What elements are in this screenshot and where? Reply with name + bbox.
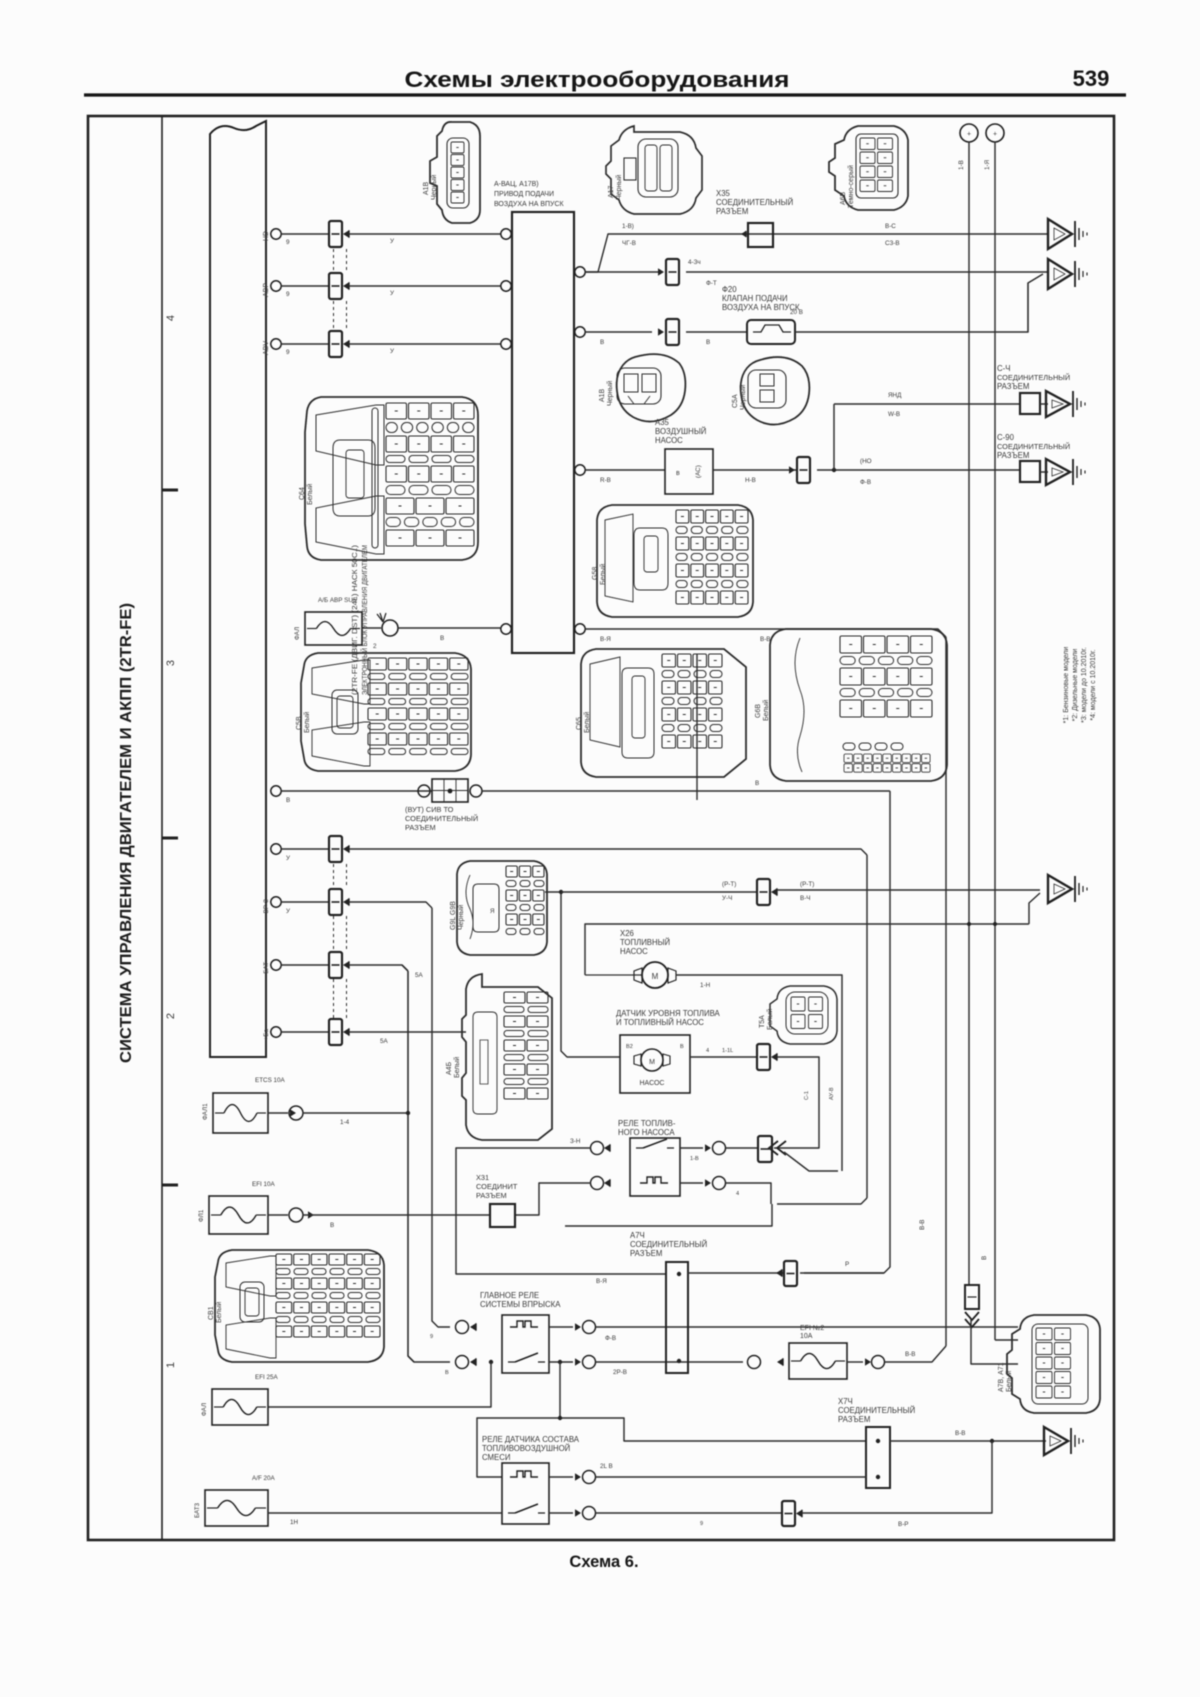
svg-text:2: 2	[373, 643, 377, 650]
wire row902 to drop x432	[349, 902, 432, 908]
fuse F2 ЕТСS 10А	[213, 1093, 268, 1133]
zone tick 3/2	[162, 837, 178, 840]
step wire to relay area	[565, 1204, 772, 1226]
svg-text:АВР: АВР	[263, 283, 270, 297]
dashed link between connectors top group	[333, 249, 335, 271]
svg-text:(ВУТ) СИВ ТО: (ВУТ) СИВ ТО	[405, 805, 454, 814]
main relay right pins	[575, 1323, 581, 1330]
svg-text:А7Ч: А7Ч	[630, 1231, 645, 1240]
svg-text:Черный: Черный	[615, 175, 623, 200]
svg-text:1-Н: 1-Н	[700, 982, 711, 989]
ground G1	[1048, 219, 1072, 249]
fuse F1 АМ2 30А	[305, 612, 362, 645]
svg-text:СОЕДИНИТЕЛЬНЫЙ: СОЕДИНИТЕЛЬНЫЙ	[630, 1240, 707, 1249]
svg-text:ВОЗДУХА НА ВПУСК: ВОЗДУХА НА ВПУСК	[494, 201, 565, 208]
svg-text:G58: G58	[592, 567, 599, 580]
svg-text:ФАЛ: ФАЛ	[294, 627, 301, 640]
реле топливного насоса box	[630, 1138, 680, 1196]
svg-text:Белый: Белый	[453, 1057, 461, 1078]
привод output pin row2	[575, 327, 585, 337]
drop x408 to main relay row2	[408, 971, 450, 1362]
svg-text:А35: А35	[655, 418, 670, 427]
svg-text:В-Я: В-Я	[596, 1278, 607, 1285]
connector Х7Ч соединительный разъем 2	[866, 1427, 890, 1488]
svg-text:Белый: Белый	[215, 1302, 223, 1323]
connector A46 Белый big	[462, 974, 552, 1140]
svg-text:РАЗЪЕМ: РАЗЪЕМ	[838, 1415, 870, 1424]
svg-text:В-Ч: В-Ч	[800, 895, 811, 902]
svg-text:ДАТЧИК УРОВНЯ ТОПЛИВА: ДАТЧИК УРОВНЯ ТОПЛИВА	[616, 1009, 721, 1018]
svg-text:Ф-В: Ф-В	[605, 1335, 616, 1342]
inline connector row1057	[757, 1044, 770, 1070]
привод output pin row3	[575, 465, 585, 475]
junction dots row1362	[489, 1360, 493, 1364]
svg-text:НАСОС: НАСОС	[620, 947, 648, 956]
wire main relay row1 to A7B	[596, 1326, 1018, 1328]
svg-text:АУ-В: АУ-В	[829, 1087, 835, 1100]
svg-text:НАСОС: НАСОС	[655, 436, 683, 445]
svg-text:Черный: Черный	[606, 381, 614, 406]
svg-text:ВОЗДУХА НА ВПУСК: ВОЗДУХА НА ВПУСК	[722, 303, 800, 312]
svg-text:Черный: Черный	[430, 175, 438, 200]
ECU pin АВР	[271, 281, 281, 291]
wire sensor to connector row1057	[690, 1056, 757, 1058]
wire G66 to fuel gauge sensor	[545, 892, 620, 1057]
реле датчика box	[502, 1463, 549, 1524]
junction dots on bus at pump line	[967, 922, 971, 926]
wire EFI25 riser	[268, 1362, 491, 1407]
wire row849 to bus x867	[349, 849, 867, 855]
привод output pin row1	[575, 267, 585, 277]
svg-text:*4: модели с 10.2010г.: *4: модели с 10.2010г.	[1090, 649, 1097, 720]
svg-text:СОЕДИНИТЕЛЬНЫЙ: СОЕДИНИТЕЛЬНЫЙ	[997, 442, 1070, 451]
svg-text:РАЗЪЕМ: РАЗЪЕМ	[716, 207, 748, 216]
svg-text:Ф-В: Ф-В	[860, 479, 871, 486]
svg-text:В: В	[286, 797, 290, 804]
svg-text:(2TR-FE (ДВИГ. DST) (24L) НАСК: (2TR-FE (ДВИГ. DST) (24L) НАСК 50С..)	[352, 545, 359, 695]
svg-text:ЯНД: ЯНД	[888, 392, 902, 399]
svg-text:Ф20: Ф20	[722, 285, 737, 294]
svg-text:РАЗЪЕМ: РАЗЪЕМ	[997, 451, 1029, 460]
svg-text:А6В: А6В	[840, 191, 847, 205]
svg-text:+: +	[993, 131, 997, 138]
connector A17 Черный	[606, 126, 702, 214]
svg-text:РАЗЪЕМ: РАЗЪЕМ	[630, 1249, 662, 1258]
wire to ground G3a	[1040, 403, 1048, 405]
wire row404 to разъем С-Ч	[834, 403, 1019, 405]
wire to ground G3b	[1040, 471, 1048, 473]
svg-text:9: 9	[286, 349, 290, 356]
svg-text:ЕFI №2: ЕFI №2	[800, 1325, 824, 1332]
bus wire from circle 1	[968, 142, 970, 1285]
ECU электронный блок управления двигателем	[210, 121, 266, 1057]
svg-text:В: В	[445, 1370, 449, 1376]
svg-text:R-В: R-В	[600, 477, 611, 484]
svg-text:(АС): (АС)	[695, 465, 702, 478]
wire насос to junction	[713, 469, 797, 471]
svg-text:В-В: В-В	[905, 1351, 916, 1358]
fuse F5 А/F 20А	[205, 1490, 268, 1526]
svg-text:Х7Ч: Х7Ч	[838, 1397, 853, 1406]
svg-text:С5А: С5А	[732, 394, 739, 408]
привод bottom-right pin	[575, 624, 585, 634]
ECU pin row965 БАТ	[271, 960, 281, 970]
svg-text:4: 4	[165, 315, 177, 321]
svg-text:Темно-серый: Темно-серый	[847, 165, 855, 208]
fuse F4 ЕFI 25А	[212, 1389, 268, 1425]
wire coil out drop to ECU-line x867	[726, 1183, 771, 1204]
fuel pump ground riser	[1029, 893, 1040, 924]
svg-text:А/Б АВР SU5: А/Б АВР SU5	[318, 597, 357, 604]
wire connector to клапан	[686, 331, 747, 333]
connector A7B А71 Белый	[1007, 1315, 1100, 1413]
svg-text:В2: В2	[626, 1044, 633, 1050]
svg-text:ФАЛ: ФАЛ	[201, 1403, 208, 1416]
wire HD connector to привод	[349, 233, 501, 235]
svg-text:СОЕДИНИТЕЛЬНЫЙ: СОЕДИНИТЕЛЬНЫЙ	[838, 1406, 915, 1415]
fuel pump area wire top	[585, 924, 1029, 975]
riser to row404	[833, 404, 835, 470]
wire row1032 to A46	[349, 1031, 466, 1033]
ground G5	[1044, 1427, 1068, 1455]
svg-text:В-В: В-В	[955, 1430, 966, 1437]
relay left pins	[604, 1144, 610, 1151]
wire main relay row2 to fuse EFI no2	[596, 1361, 743, 1363]
svg-text:*1: Бензиновые модели: *1: Бензиновые модели	[1063, 647, 1070, 724]
svg-text:СИСТЕМА УПРАВЛЕНИЯ ДВИГАТЕЛЕМ: СИСТЕМА УПРАВЛЕНИЯ ДВИГАТЕЛЕМ И АКПП (2T…	[118, 603, 135, 1063]
привод pin HD	[501, 229, 511, 239]
connector G66 G9L G9B Черный	[457, 861, 547, 955]
wire row 272 to ground G2	[585, 271, 660, 273]
svg-text:А-ВАЦ, А17В): А-ВАЦ, А17В)	[494, 181, 539, 188]
svg-text:Т5А: Т5А	[759, 1015, 766, 1028]
inline connector row332	[666, 319, 679, 345]
svg-text:СОЕДИНИТЕЛЬНЫЙ: СОЕДИНИТЕЛЬНЫЙ	[997, 373, 1070, 382]
привод подачи воздуха на впуск block A-ВАЦ	[512, 212, 574, 653]
wire to ground G4 path	[777, 889, 1040, 891]
клапан подачи воздуха на впуск F20	[747, 320, 795, 344]
привод pin АВV	[501, 339, 511, 349]
svg-text:М: М	[652, 972, 659, 981]
svg-text:Белый: Белый	[1005, 1371, 1013, 1392]
svg-text:(Р-Т): (Р-Т)	[800, 881, 814, 888]
svg-text:Белый: Белый	[762, 700, 770, 721]
wire key to привод pin	[398, 627, 501, 629]
svg-text:в: в	[676, 470, 680, 477]
svg-text:4: 4	[706, 1048, 709, 1054]
svg-text:Х31: Х31	[476, 1173, 489, 1182]
power node circle 2	[986, 124, 1004, 142]
wire row791 to 6cell connector	[281, 790, 432, 792]
svg-text:А17: А17	[608, 185, 615, 198]
bus x971 into A7B	[971, 1319, 1018, 1364]
inline connector pair АВV	[329, 331, 342, 357]
svg-text:1-В): 1-В)	[622, 223, 634, 230]
svg-text:Белый: Белый	[306, 484, 314, 505]
zone tick 2/1	[162, 1184, 178, 1187]
svg-text:С5В: С5В	[296, 716, 303, 730]
wire U-loop from X74 to relay row1148	[456, 1148, 666, 1274]
svg-text:Белый: Белый	[599, 564, 607, 585]
header rule	[84, 93, 1126, 96]
ground G3a	[1046, 391, 1070, 417]
svg-text:РАЗЪЕМ: РАЗЪЕМ	[476, 1191, 507, 1200]
svg-text:ТОПЛИВОВОЗДУШНОЙ: ТОПЛИВОВОЗДУШНОЙ	[482, 1444, 570, 1453]
wire row965 to connector	[281, 964, 329, 966]
wire F5 to A/F relay	[268, 1512, 502, 1514]
svg-text:ФЛ1: ФЛ1	[198, 1209, 205, 1222]
inline connector pair HD	[329, 221, 342, 247]
svg-text:ЕFI 10А: ЕFI 10А	[252, 1181, 276, 1188]
svg-text:1-4: 1-4	[340, 1119, 350, 1126]
inline connector row965	[329, 952, 342, 978]
connector X74 А7Ч соединительный разъем	[666, 1262, 688, 1373]
connector C65 Белый big	[581, 649, 746, 777]
wire row1441 to ground G5	[890, 1440, 1046, 1442]
wire A/F switch row right	[596, 1512, 782, 1514]
connector C64 Черный big	[305, 397, 478, 560]
svg-text:10А: 10А	[800, 1333, 813, 1340]
connector C58 Белый big	[301, 653, 471, 771]
svg-text:Ф-Т: Ф-Т	[706, 280, 717, 287]
svg-text:СОЕДИНИТЕЛЬНЫЙ: СОЕДИНИТЕЛЬНЫЙ	[716, 198, 793, 207]
inline connector on bus x971	[965, 1285, 979, 1309]
svg-text:СОЕДИНИТ: СОЕДИНИТ	[476, 1182, 518, 1191]
inline connector row1513	[782, 1501, 795, 1526]
svg-text:И ТОПЛИВНЫЙ НАСОС: И ТОПЛИВНЫЙ НАСОС	[616, 1018, 704, 1027]
junction dot row472	[832, 468, 836, 472]
svg-text:В: В	[440, 635, 444, 642]
svg-text:КЛАПАН ПОДАЧИ: КЛАПАН ПОДАЧИ	[722, 294, 788, 303]
svg-text:Я: Я	[490, 908, 495, 915]
wire dot560 drop	[477, 1362, 560, 1477]
wire row1513 riser to ground row	[802, 1441, 992, 1513]
6-cell connector (ВУТ) СИВ ТО	[418, 785, 430, 797]
wire row902 to connector	[281, 901, 329, 903]
diagram frame border	[88, 116, 1114, 1540]
wire F2 output	[268, 1112, 288, 1114]
svg-text:СИСТЕМЫ ВПРЫСКА: СИСТЕМЫ ВПРЫСКА	[480, 1300, 561, 1309]
svg-text:*3: модели до 10.2010г.: *3: модели до 10.2010г.	[1081, 647, 1088, 723]
svg-text:1Н: 1Н	[290, 1519, 299, 1526]
svg-text:СОЕДИНИТЕЛЬНЫЙ: СОЕДИНИТЕЛЬНЫЙ	[405, 814, 478, 823]
svg-text:А7В, А71: А7В, А71	[998, 1362, 1005, 1392]
svg-text:ТОПЛИВНЫЙ: ТОПЛИВНЫЙ	[620, 938, 670, 947]
inline connector row472	[797, 457, 810, 483]
wire HD ЭБУ to connector	[281, 233, 329, 235]
svg-text:G6В: G6В	[755, 704, 762, 718]
wire АВР connector to привод	[349, 285, 501, 287]
wire connector to разъем С-Ч0	[817, 469, 1019, 471]
svg-text:В: В	[981, 1256, 988, 1260]
svg-text:ВОЗДУШНЫЙ: ВОЗДУШНЫЙ	[655, 427, 706, 436]
fuel pump wire to motor	[585, 974, 642, 976]
svg-text:БАТ: БАТ	[263, 962, 270, 974]
привод bottom-left pin	[501, 624, 511, 634]
svg-text:+Ба: +Ба	[263, 1029, 270, 1041]
svg-text:РАЗЪЕМ: РАЗЪЕМ	[997, 382, 1029, 391]
connector G58 Белый big	[597, 505, 753, 617]
svg-text:БАТ3: БАТ3	[194, 1502, 201, 1518]
svg-text:РЕЛЕ ТОПЛИВ-: РЕЛЕ ТОПЛИВ-	[618, 1119, 676, 1128]
svg-text:В: В	[706, 339, 710, 346]
fuse F6 ЕFI №2 10А	[789, 1343, 847, 1379]
wire F2 to junction x408	[303, 1112, 408, 1114]
svg-text:РЕЛЕ ДАТЧИКА СОСТАВА: РЕЛЕ ДАТЧИКА СОСТАВА	[482, 1435, 580, 1444]
dashed link lower connector group	[333, 864, 335, 888]
wire branch up to X35 row	[585, 234, 640, 272]
ECU pin row1032	[271, 1027, 281, 1037]
svg-text:ФАЛ1: ФАЛ1	[202, 1103, 209, 1120]
svg-text:Белый: Белый	[303, 712, 311, 733]
wire F1 to ignition key	[362, 627, 381, 629]
title column divider	[161, 116, 163, 1540]
ground G4	[1048, 875, 1072, 903]
svg-text:ЕFI 25А: ЕFI 25А	[255, 1374, 279, 1381]
svg-text:Черный: Черный	[739, 385, 747, 410]
wire row791 right to bus	[482, 790, 890, 792]
wire F6 to bus x946 diagonal	[885, 1346, 946, 1362]
svg-text:9: 9	[286, 291, 290, 298]
A/F relay right pins	[575, 1473, 581, 1480]
wire АВV connector to привод	[349, 343, 501, 345]
wire привод to EFI no2 drop	[585, 629, 946, 637]
inline connector row1273	[784, 1261, 797, 1286]
wire АВР ЭБУ to connector	[281, 285, 329, 287]
svg-text:Схемы электрооборудования: Схемы электрооборудования	[405, 67, 790, 92]
ECU pin row902	[271, 897, 281, 907]
svg-text:НАСОС: НАСОС	[640, 1080, 665, 1087]
svg-text:ВР-З: ВР-З	[263, 899, 270, 913]
inline connector row1032	[329, 1019, 342, 1045]
svg-text:Х26: Х26	[620, 929, 634, 938]
junction dot G66 wire	[559, 890, 563, 894]
fuse F6 right pin	[865, 1358, 871, 1365]
svg-text:В: В	[330, 1222, 334, 1229]
junction dot F2/БАТ	[406, 1111, 410, 1115]
bus wire from circle 2	[994, 142, 996, 1340]
svg-text:НОГО НАСОСА: НОГО НАСОСА	[618, 1128, 675, 1137]
svg-text:ПРИВОД ПОДАЧИ: ПРИВОД ПОДАЧИ	[494, 191, 554, 198]
svg-text:3: 3	[165, 660, 177, 666]
bus x890 down to X74 row	[800, 791, 890, 1273]
wire клапан to ground G2 riser	[795, 274, 1043, 332]
svg-text:4-Зч: 4-Зч	[688, 259, 701, 266]
diagonal wire to tank pump return	[784, 1152, 838, 1171]
svg-text:(НО: (НО	[860, 458, 872, 465]
svg-text:1-1L: 1-1L	[722, 1048, 733, 1054]
svg-text:З-Н: З-Н	[570, 1138, 581, 1145]
ground G2	[1048, 259, 1072, 289]
relay coil out pin row1183	[705, 1179, 711, 1186]
svg-text:HD: HD	[263, 231, 270, 241]
wire row849 to connector	[281, 848, 329, 850]
wire relay to connector row1148	[680, 1147, 703, 1149]
power node circle 1	[960, 124, 978, 142]
svg-text:9: 9	[430, 1334, 433, 1340]
svg-text:А4Б: А4Б	[446, 1061, 453, 1075]
wire F3 to X31	[303, 1214, 490, 1216]
wire F3 output	[268, 1214, 288, 1216]
svg-text:В-Р: В-Р	[898, 1521, 909, 1528]
wire X74 out row1273	[688, 1272, 784, 1274]
ECU pin АВV	[271, 339, 281, 349]
fuel pump motor M	[642, 962, 668, 988]
svg-text:В-С: В-С	[885, 223, 896, 230]
svg-text:С-Ч: С-Ч	[997, 364, 1010, 373]
wire dot560 to ground row	[560, 1418, 866, 1441]
svg-text:5А: 5А	[415, 972, 424, 979]
svg-text:ЕТСS 10А: ЕТСS 10А	[255, 1077, 286, 1084]
ground G3b	[1046, 459, 1070, 485]
double chevron on bus x971	[965, 1312, 979, 1327]
zone tick 4/3	[162, 489, 178, 492]
svg-text:4: 4	[736, 1191, 739, 1197]
svg-text:2Р-В: 2Р-В	[613, 1369, 627, 1376]
svg-text:РАЗЪЕМ: РАЗЪЕМ	[405, 823, 436, 832]
svg-text:Х35: Х35	[716, 189, 731, 198]
connector G68 Белый big	[770, 629, 947, 781]
svg-text:539: 539	[1073, 66, 1110, 91]
vertical bus to fuse EFI no2	[945, 637, 947, 1346]
svg-text:Н-В: Н-В	[745, 477, 756, 484]
svg-text:А1В: А1В	[423, 181, 430, 195]
датчик уровня топлива box	[620, 1035, 690, 1093]
svg-text:2: 2	[165, 1013, 177, 1019]
svg-text:У-Ч: У-Ч	[722, 895, 732, 902]
svg-text:В: В	[600, 339, 604, 346]
wire to воздушный насос	[585, 469, 665, 471]
svg-text:1-В: 1-В	[690, 1156, 699, 1162]
svg-text:Р: Р	[845, 1261, 849, 1268]
главное реле box	[502, 1315, 549, 1373]
svg-text:Черный: Черный	[457, 905, 465, 930]
svg-text:СМЕСИ: СМЕСИ	[482, 1453, 510, 1462]
svg-text:Белый: Белый	[766, 1009, 774, 1030]
svg-text:*2: Дизельные модели: *2: Дизельные модели	[1072, 649, 1079, 722]
connector A18 Черный	[430, 122, 480, 223]
svg-text:АВV: АВV	[263, 341, 270, 355]
fuse F3 ЕFI 10А	[209, 1196, 268, 1234]
ECU pin row791	[271, 786, 281, 796]
svg-text:В: В	[755, 780, 759, 787]
ECU pin HD	[271, 229, 281, 239]
inline connector row849	[329, 836, 342, 862]
svg-text:А1В: А1В	[599, 388, 606, 402]
relay switch out pin row1148	[705, 1144, 711, 1151]
svg-text:С65: С65	[576, 717, 583, 730]
svg-text:2L В: 2L В	[600, 1463, 613, 1470]
привод pin АВР	[501, 281, 511, 291]
svg-text:Белый: Белый	[583, 712, 591, 733]
svg-text:G9L G9В: G9L G9В	[450, 901, 457, 930]
connector T5A Белый round	[770, 986, 837, 1044]
svg-text:С64: С64	[299, 487, 306, 500]
svg-text:М: М	[649, 1059, 655, 1066]
inline connector row1148 with chevrons	[758, 1136, 772, 1162]
wire row965 БАТ to drop x408	[349, 965, 408, 971]
svg-text:Схема 6.: Схема 6.	[569, 1553, 638, 1571]
svg-text:(Р-Т): (Р-Т)	[722, 881, 736, 888]
svg-text:А/F 20А: А/F 20А	[252, 1475, 276, 1482]
inline connector row272	[658, 268, 664, 275]
main relay left pins	[456, 1321, 469, 1334]
junction dot row1441 riser	[990, 1439, 994, 1443]
svg-text:СЗ-В: СЗ-В	[885, 240, 900, 247]
svg-text:В: В	[680, 1044, 684, 1050]
drop x432 to main relay row1	[432, 908, 450, 1327]
svg-text:5А: 5А	[380, 1038, 389, 1045]
